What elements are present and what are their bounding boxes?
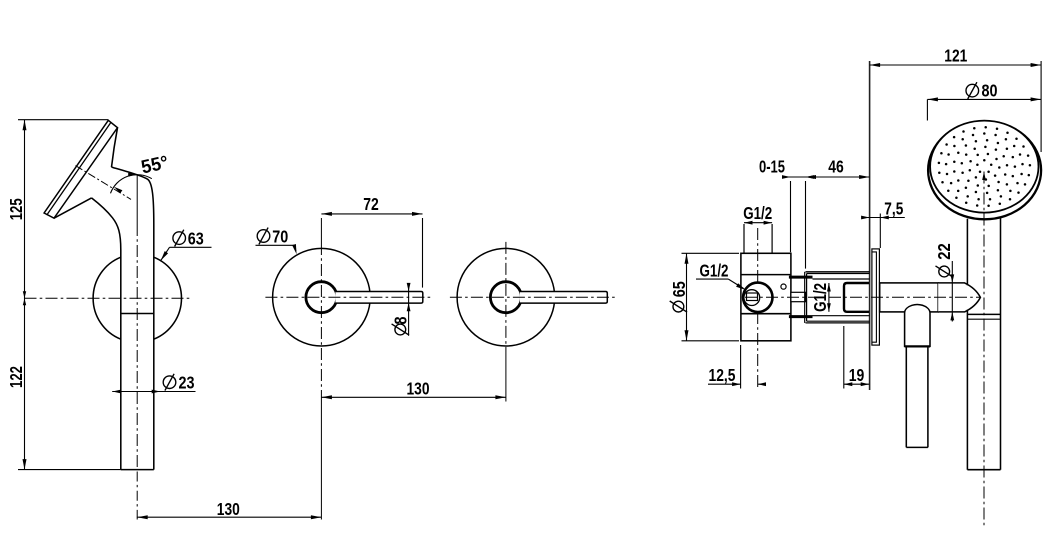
middle view: left lever handle	[335, 292, 422, 304]
label diameter 70 with leader	[256, 227, 297, 255]
svg-text:0-15: 0-15	[759, 156, 785, 176]
right view: wall line	[869, 61, 871, 390]
left view: head axis centerline	[76, 166, 132, 200]
middle view: right vertical centerline	[505, 242, 507, 402]
label G1/2 (socket, rotated)	[810, 283, 830, 312]
label 72	[363, 194, 379, 214]
right view: handshower handle tube	[967, 218, 1000, 470]
right view: mounting tab top	[789, 276, 813, 279]
left view: pipe bend right edge	[112, 167, 154, 470]
left view: vertical pipe centerline	[136, 224, 138, 520]
middle view: right handle hub circle	[490, 282, 521, 313]
right view: mounting tab bottom	[789, 315, 813, 318]
extension line bottom (pipe end)	[18, 469, 121, 471]
svg-text:130: 130	[217, 499, 240, 519]
svg-text:70: 70	[272, 227, 288, 247]
label 7,5	[884, 199, 903, 219]
right view: spray face dots	[938, 126, 1032, 207]
dimension diameter 65 (body height)	[682, 253, 740, 340]
label 12,5	[709, 365, 736, 385]
extension line top (head tip)	[18, 119, 108, 121]
label 122	[6, 366, 26, 388]
svg-text:125: 125	[6, 198, 26, 220]
label diameter 65	[669, 281, 689, 312]
right view: handshower head rim	[928, 121, 1041, 219]
label diameter 23 with arrows	[112, 373, 195, 394]
svg-text:8: 8	[390, 316, 410, 324]
right view: G1/2 outlet socket	[844, 283, 869, 312]
dimension diameter 22 (holder arm)	[950, 261, 954, 322]
middle view: left vertical centerline	[320, 218, 322, 520]
label G1/2 (top)	[743, 203, 772, 223]
dimension diameter 80	[927, 97, 1041, 120]
right view: valve body outline	[741, 253, 791, 340]
right view: handshower head face	[930, 121, 1038, 213]
svg-text:80: 80	[982, 80, 998, 100]
label 0-15	[759, 156, 785, 176]
svg-text:23: 23	[179, 373, 195, 393]
right view: small screw circle	[781, 284, 786, 289]
right view: holder cone tip	[938, 283, 980, 312]
svg-text:121: 121	[944, 45, 967, 65]
label 46	[828, 156, 844, 176]
right view: G1/2 socket dimension	[827, 283, 831, 312]
right view: sleeve inner tube	[813, 279, 870, 316]
svg-text:22: 22	[934, 243, 954, 260]
left view: pipe joint line	[121, 313, 154, 315]
left view: wall flange circle Ø63 (arcs behind pipe)	[93, 257, 181, 339]
label 121	[944, 45, 967, 65]
svg-text:46: 46	[828, 156, 844, 176]
right view: cartridge stem	[791, 292, 806, 301]
svg-text:19: 19	[849, 365, 865, 385]
middle view: left horizontal centerline	[265, 296, 432, 298]
svg-text:72: 72	[363, 194, 379, 214]
svg-text:G1/2: G1/2	[700, 261, 729, 281]
right view: body centerline vertical	[757, 228, 759, 390]
middle view: right horizontal centerline	[450, 296, 617, 298]
right view: horizontal centerline	[745, 296, 981, 298]
dimension 130 (middle)	[321, 395, 506, 399]
middle view: left handle hub circle	[306, 282, 337, 313]
svg-text:130: 130	[407, 378, 430, 398]
dimension 130 (bottom left)	[137, 515, 322, 519]
svg-text:65: 65	[669, 281, 689, 297]
svg-text:G1/2: G1/2	[743, 203, 772, 223]
dimension 12,5	[708, 345, 766, 389]
left view: pipe bottom end	[121, 469, 154, 471]
label diameter 80	[966, 80, 998, 100]
svg-text:122: 122	[6, 366, 26, 388]
right view: inlet stub G1/2 (top)	[744, 224, 772, 253]
right view: shower holder arm	[880, 283, 939, 312]
label 55 degrees	[139, 152, 170, 178]
dimension 46	[806, 175, 870, 179]
middle view: right escutcheon circle Ø70	[457, 248, 555, 346]
dimension 0-15	[782, 175, 814, 269]
left view: horizontal centerline	[25, 297, 191, 299]
label 19	[849, 365, 865, 385]
svg-text:63: 63	[188, 229, 204, 249]
dimension 72 (middle)	[321, 212, 422, 288]
dimension 7,5	[861, 214, 905, 249]
svg-text:12,5: 12,5	[709, 365, 736, 385]
left view: head cone / neck upper edge	[112, 128, 118, 167]
right view: handle centerline	[982, 172, 986, 529]
dimension 19	[844, 326, 869, 389]
label 125	[6, 198, 26, 220]
left view: head cone / neck lower edge	[54, 198, 92, 218]
right view: hose tube	[906, 346, 928, 447]
right view: wall escutcheon plate	[872, 249, 880, 345]
label diameter 63 with leader	[160, 229, 211, 262]
label diameter 22	[934, 243, 954, 277]
middle view: right lever handle	[520, 292, 607, 304]
right view: plug circle and square	[744, 290, 760, 306]
dimension G1/2 (top stub)	[744, 221, 772, 225]
dimension 121	[870, 61, 1042, 152]
label G1/2 (side) with leader	[696, 261, 746, 291]
dimension line 125-122 (left)	[23, 120, 27, 470]
label 130 (bottom left)	[217, 499, 240, 519]
label diameter 8 with arrows (lever)	[390, 283, 410, 336]
left view: pipe bend left edge	[92, 198, 121, 470]
right view: side inlet circle G1/2	[743, 283, 772, 312]
label 130 (middle)	[407, 378, 430, 398]
middle view: left escutcheon circle Ø70	[273, 248, 371, 346]
left view: 55 degree angle arc	[111, 173, 152, 194]
right view: sleeve outer	[805, 272, 870, 323]
left view: angle vertex vertical reference line	[136, 175, 138, 225]
left view: shower head disc (tilted)	[44, 120, 117, 218]
svg-text:7,5: 7,5	[884, 199, 903, 219]
right view: hose connector dome	[905, 305, 930, 347]
